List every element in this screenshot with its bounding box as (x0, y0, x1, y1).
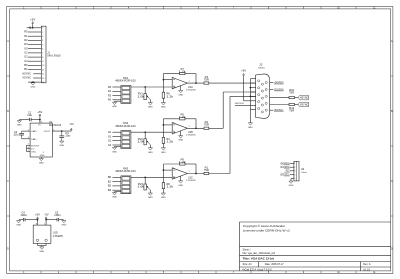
resistor network RN1 (121, 86, 131, 104)
J2 pin 12 stub (270, 89, 274, 91)
frame column ticks top (40, 7, 42, 9)
svg-text:GND: GND (112, 197, 117, 199)
junction inverting input (163, 79, 165, 81)
RN2 internal ladder resistors (122, 132, 130, 135)
pin V- stub of U1D (45, 220, 47, 225)
J2 pin 14 stub (270, 104, 289, 106)
ground left of C4 (18, 219, 20, 222)
svg-text:DE15: DE15 (258, 67, 265, 69)
svg-text:GND: GND (148, 197, 153, 199)
RN3 input stubs and bit labels (112, 176, 121, 178)
svg-text:GND: GND (248, 127, 253, 129)
svg-text:File: vga_dac_12bit.kicad_sch: File: vga_dac_12bit.kicad_sch (243, 252, 276, 255)
svg-text:+5V: +5V (241, 71, 247, 73)
frame column ticks bottom (40, 271, 42, 274)
svg-text:10: 10 (42, 65, 44, 67)
svg-text:GND: GND (39, 251, 44, 253)
op-amp U1A (172, 77, 187, 88)
wire inverting input node (162, 164, 164, 183)
RN1 input stubs and bit labels (112, 86, 121, 88)
wire green channel to J2 (209, 127, 223, 129)
junction inverting input (163, 124, 165, 126)
svg-text:1: 1 (189, 126, 190, 128)
op-amp U1C (172, 168, 187, 179)
svg-text:2: 2 (173, 168, 174, 170)
ground left of C1 (18, 120, 20, 121)
svg-text:9: 9 (42, 61, 43, 63)
svg-text:3: 3 (294, 171, 295, 173)
global label HSYNC (298, 95, 308, 99)
RN1 ground pin (115, 100, 121, 102)
resistor R3 output (204, 82, 209, 84)
power +5V above U2 (39, 116, 41, 117)
capacitor C2 flying (21, 131, 23, 133)
svg-text:GND: GND (148, 152, 153, 154)
wire +5V to J1 pin 1 (32, 24, 34, 27)
resistor R6 (162, 92, 165, 98)
wire R8 to ground (162, 189, 164, 193)
svg-text:CAP+: CAP+ (31, 130, 38, 133)
svg-text:GND: GND (16, 225, 21, 227)
junction output feedback (195, 173, 197, 175)
svg-text:ID0/RES: ID0/RES (274, 83, 284, 85)
ground below op-amp U1B (179, 136, 183, 138)
wire R10 to HSYNC label (295, 97, 299, 99)
svg-text:−5V: −5V (44, 215, 50, 217)
title block column dividers (257, 262, 259, 268)
svg-text:GND: GND (112, 151, 117, 153)
capacitor C3 output (61, 131, 63, 136)
svg-text:14: 14 (42, 82, 44, 84)
svg-text:1: 1 (294, 163, 295, 165)
U1D internal pin circles (36, 239, 38, 241)
svg-text:2: 2 (42, 32, 43, 34)
capacitor C1 bypass (31, 119, 40, 121)
title block outline (239, 222, 241, 271)
svg-text:6: 6 (28, 147, 29, 149)
connector J2 body (256, 74, 270, 119)
svg-text:LT6205: LT6205 (186, 90, 197, 92)
svg-text:U1D: U1D (53, 232, 58, 234)
svg-text:GND: GND (112, 106, 117, 108)
resistor R4 (162, 137, 165, 143)
wire joining U2 unused pins (26, 145, 28, 151)
svg-text:BOOST: BOOST (31, 145, 40, 147)
ground below J3 (289, 181, 293, 183)
svg-text:7: 7 (28, 150, 29, 152)
wire +5V into U2 V+ pin (39, 117, 41, 123)
svg-text:LT6205: LT6205 (186, 180, 197, 182)
wire red channel to J2 (209, 82, 256, 84)
wire RN3 output to op-amp (131, 176, 172, 178)
junction trimmer RV2 (144, 131, 146, 133)
svg-text:Title: VGA DAC 12-bit: Title: VGA DAC 12-bit (243, 257, 274, 261)
svg-text:GND: GND (62, 225, 67, 227)
svg-text:GND: GND (39, 162, 44, 164)
svg-text:ID3/SCL: ID3/SCL (280, 175, 290, 177)
frame row ticks right (391, 75, 393, 77)
wire J3 pin5 to ground (290, 178, 292, 181)
svg-text:8: 8 (36, 223, 37, 225)
svg-text:2: 2 (173, 123, 174, 125)
junction trimmer RV1 (144, 86, 146, 88)
J2 pin 15 stub (270, 109, 274, 111)
wire U2 GND pin (40, 157, 42, 158)
svg-text:1: 1 (189, 171, 190, 173)
wire +5V to J2 key pin (243, 76, 245, 101)
svg-text:GND: GND (178, 185, 183, 187)
ground at J1 pin 14 (32, 81, 34, 83)
svg-text:MAX1044: MAX1044 (49, 124, 62, 127)
wire op-amp output (187, 127, 204, 129)
svg-text:3: 3 (43, 152, 44, 154)
svg-text:7: 7 (42, 53, 43, 55)
svg-text:Size: A4: Size: A4 (243, 263, 253, 266)
svg-text:100n: 100n (54, 215, 62, 217)
ground below U1D (40, 247, 44, 249)
J2 pin 13 stub (270, 97, 289, 99)
RN1 internal ladder resistors (122, 86, 130, 89)
svg-text:Date: 2025-07-17: Date: 2025-07-17 (265, 263, 285, 266)
ground below U2 (39, 158, 43, 160)
junction +5V / C1 (39, 119, 41, 121)
svg-text:GND: GND (178, 94, 183, 96)
ground below RV2 (148, 148, 152, 150)
resistor R8 (162, 183, 165, 189)
resistor R11 vsync (289, 103, 295, 105)
svg-text:2: 2 (28, 130, 29, 132)
svg-text:GND: GND (161, 107, 166, 109)
svg-text:4: 4 (44, 223, 45, 225)
capacitor C5 bypass (46, 219, 57, 221)
wire blue channel to J2 (209, 173, 230, 175)
ground below op-amp U1A (179, 90, 183, 92)
RN3 internal ladder resistors (122, 177, 130, 180)
svg-text:4: 4 (294, 174, 295, 176)
wire inverting input node (162, 74, 164, 93)
connector J1 pin stubs and numbers (27, 27, 42, 29)
junction trimmer RV3 (144, 177, 146, 179)
wire U2 VOUT to -5V (52, 130, 71, 132)
svg-text:12: 12 (42, 74, 44, 76)
wire RN2 output to op-amp (131, 131, 172, 133)
connector J3 pin stubs (290, 163, 294, 165)
svg-text:HSYNC: HSYNC (22, 74, 31, 76)
svg-text:5: 5 (294, 178, 295, 180)
op-amp U1C V- stub (180, 176, 182, 181)
svg-text:GND: GND (178, 140, 183, 142)
wire feedback row (163, 163, 179, 165)
svg-text:+5V: +5V (37, 112, 43, 114)
svg-text:2: 2 (294, 167, 295, 169)
svg-text:GND: GND (31, 87, 36, 89)
resistor R9 feedback (180, 163, 186, 165)
svg-text:VSYNC: VSYNC (300, 105, 309, 107)
ground below op-amp U1C (179, 181, 183, 183)
wire op-amp output (187, 173, 204, 175)
junction V+ bypass (37, 219, 39, 221)
wire RN1 output to op-amp (131, 86, 172, 88)
svg-text:4606X-R2R-103: 4606X-R2R-103 (115, 80, 136, 83)
wire R4 to ground (162, 143, 164, 147)
pin BOOST of U2 (27, 144, 31, 146)
svg-text:GND: GND (17, 125, 22, 127)
svg-text:HSYNC: HSYNC (300, 98, 309, 100)
J2 ground bus (249, 79, 251, 123)
global label VSYNC (298, 102, 308, 106)
svg-text:75R: 75R (289, 93, 294, 95)
svg-text:3: 3 (42, 36, 43, 38)
J2 pin 11 stub (270, 82, 274, 84)
svg-text:KiCad E.D.A. kicad 7.0.5-0: KiCad E.D.A. kicad 7.0.5-0 (243, 268, 273, 271)
svg-text:HS1/VS1: HS1/VS1 (235, 103, 245, 105)
resistor network RN2 (121, 131, 131, 149)
svg-text:3: 3 (173, 131, 174, 133)
svg-text:GND: GND (148, 107, 153, 109)
power -5V above U1D (45, 219, 47, 220)
svg-text:4: 4 (42, 40, 43, 42)
svg-text:LT6205: LT6205 (186, 135, 197, 137)
svg-text:6: 6 (42, 49, 43, 51)
connector J3 body (294, 161, 299, 181)
ground below RV3 (148, 193, 152, 195)
svg-text:Sheet: /: Sheet: / (243, 248, 252, 251)
op-amp U1B V- stub (180, 131, 182, 136)
svg-text:100n: 100n (20, 215, 28, 217)
wire op-amp output (187, 82, 204, 84)
svg-text:Licensed under CERN-OHL-W v2: Licensed under CERN-OHL-W v2 (243, 228, 290, 232)
svg-text:+5V: +5V (30, 20, 36, 22)
svg-text:CAP−: CAP− (31, 138, 38, 141)
svg-text:2: 2 (173, 77, 174, 79)
connector J1 body (41, 26, 46, 83)
svg-text:4606X-R2R-103: 4606X-R2R-103 (115, 125, 136, 128)
ground below C3 (60, 141, 64, 143)
trimmer RV2 (144, 132, 146, 139)
power +5V at J1 (32, 23, 34, 24)
junction J2 gnd bus b (250, 96, 252, 98)
svg-text:1: 1 (189, 80, 190, 82)
svg-text:Id: 1/1: Id: 1/1 (363, 268, 370, 271)
svg-text:GND: GND (40, 155, 45, 157)
svg-text:VOUT: VOUT (44, 131, 51, 133)
svg-text:−5V: −5V (69, 124, 75, 126)
resistor network RN3 (121, 176, 131, 194)
resistor R1 output (204, 172, 209, 174)
ground below R4 (161, 148, 165, 150)
trimmer RV1 (144, 87, 146, 94)
svg-text:Copyright © Aaron Kohlander: Copyright © Aaron Kohlander (243, 224, 285, 228)
charge pump U2 body (30, 123, 52, 157)
pin V+ stub of U1D (37, 220, 39, 225)
junction J1 pin1 (32, 27, 34, 29)
ground below R8 (161, 193, 165, 195)
op-amp U1B (172, 123, 187, 134)
svg-text:3: 3 (173, 86, 174, 88)
svg-text:8: 8 (41, 122, 42, 124)
svg-text:1: 1 (28, 144, 29, 146)
svg-text:ID0/RES: ID0/RES (280, 163, 290, 165)
svg-text:GND: GND (161, 197, 166, 199)
svg-text:4: 4 (28, 137, 29, 139)
resistor R10 hsync (289, 97, 295, 99)
wire feedback row (163, 73, 179, 75)
svg-text:LT6205: LT6205 (53, 236, 64, 238)
frame row ticks left (7, 75, 10, 77)
junction output feedback (195, 82, 197, 84)
capacitor C4 bypass (25, 219, 38, 221)
wire U1D bottom pins to ground (37, 243, 39, 245)
ground right of C5 (63, 219, 65, 222)
svg-text:8: 8 (42, 57, 43, 59)
svg-text:S414_R3x30: S414_R3x30 (47, 55, 61, 57)
pin CAP- of U2 (22, 138, 31, 140)
op-amp U1A V- stub (180, 86, 182, 91)
svg-text:4606X-R2R-103: 4606X-R2R-103 (115, 170, 136, 173)
junction inverting input (163, 169, 165, 171)
connector J2 pin circles (258, 80, 260, 82)
junction output feedback (195, 127, 197, 129)
wire R11 to VSYNC label (295, 104, 299, 106)
op-amp power unit U1D body (33, 225, 51, 243)
svg-text:75R: 75R (289, 111, 294, 113)
svg-text:5: 5 (42, 44, 43, 46)
svg-text:ID3/SCL: ID3/SCL (274, 110, 284, 112)
svg-text:GND: GND (59, 145, 64, 147)
wire R6 to ground (162, 98, 164, 102)
pin CAP+ of U2 (22, 130, 31, 132)
resistor R7 feedback (180, 73, 186, 75)
trimmer RV3 (144, 177, 146, 184)
wire inverting input node (162, 119, 164, 138)
power +5V above U1D (37, 219, 39, 220)
RN3 ground pin (115, 191, 121, 193)
svg-text:75R: 75R (204, 80, 209, 82)
RN2 input stubs and bit labels (112, 131, 121, 133)
svg-text:11: 11 (42, 69, 44, 71)
title block row lines (240, 246, 391, 248)
svg-text:+5V: +5V (35, 215, 41, 217)
svg-text:13: 13 (42, 78, 44, 80)
junction V- bypass (45, 219, 47, 221)
RN2 ground pin (115, 145, 121, 147)
junction VOUT / C3 (61, 130, 63, 132)
resistor R2 output (204, 127, 209, 129)
svg-text:75R: 75R (204, 170, 209, 172)
svg-text:Rev: A: Rev: A (363, 263, 371, 266)
ground below RV1 (148, 103, 152, 105)
svg-text:VSYNC: VSYNC (22, 78, 31, 80)
svg-text:GND: GND (161, 152, 166, 154)
svg-text:GND: GND (289, 185, 294, 187)
svg-text:1: 1 (42, 28, 43, 30)
ground below J2 (248, 123, 252, 125)
svg-text:75R: 75R (204, 125, 209, 127)
pin OSC of U2 (27, 151, 31, 153)
ground below R6 (161, 103, 165, 105)
junction J2 gnd bus a (250, 87, 252, 89)
connector J2 left pin stubs (250, 78, 255, 80)
svg-text:3: 3 (173, 176, 174, 178)
svg-text:OSC: OSC (31, 152, 36, 154)
wire feedback row (163, 118, 179, 120)
power -5V symbol (70, 130, 72, 131)
power flag PWR_FLAG at J1 (29, 27, 31, 29)
pin LV of U2 (27, 148, 31, 150)
svg-text:Conn: Conn (301, 172, 308, 174)
power +5V at J2 (243, 75, 245, 76)
resistor R5 feedback (180, 118, 186, 120)
